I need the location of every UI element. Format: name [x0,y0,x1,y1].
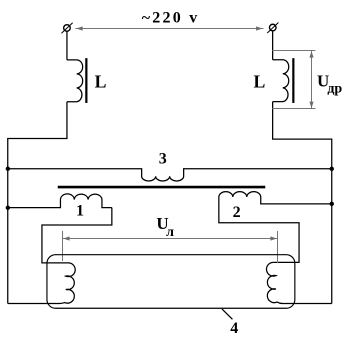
svg-text:L: L [253,71,265,91]
svg-text:L: L [95,71,107,91]
svg-text:1: 1 [76,203,84,220]
winding 2 (right filament winding) [219,192,332,263]
core bar of L2 [292,58,294,103]
svg-text:Uл: Uл [156,214,174,240]
junction: left rail / winding 3 [6,167,10,171]
leader line to label 4 [222,309,233,319]
wire: right terminal to inductor [272,31,274,60]
dimension U_l (lamp voltage) [63,231,278,263]
winding 1 (left filament winding) [8,194,112,208]
terminal X1 (left) [61,23,72,34]
inductor L1 (left choke) [67,60,83,102]
wire: right inductor down to right rail [273,102,332,304]
inductor L2 (right choke) [273,60,289,102]
svg-text:2: 2 [233,204,241,221]
svg-text:~220 v: ~220 v [142,10,198,27]
electrode (right filament) [266,262,331,303]
svg-text:3: 3 [159,151,167,168]
wire: winding 1 to left lamp electrode [42,208,112,263]
svg-text:Uдр: Uдр [317,71,342,96]
svg-text:4: 4 [230,320,238,337]
dimension U_dr (right) [272,51,315,109]
electrode (left filament) [8,263,75,304]
junction: right rail / winding 3 [330,167,334,171]
terminal X2 (right) [267,23,278,33]
dimension arrow ~220v [75,26,263,30]
core bar of L1 [85,58,87,103]
wire: left inductor down to left rail [8,102,67,304]
junction: right rail / winding 2 [330,202,334,206]
transformer core bar [58,186,266,189]
winding 3 (primary, between rails) [8,169,332,181]
junction: left rail / winding 1 [6,206,10,210]
lamp tube 4 (glass envelope) [47,255,295,309]
wire: left terminal to inductor [66,31,68,60]
